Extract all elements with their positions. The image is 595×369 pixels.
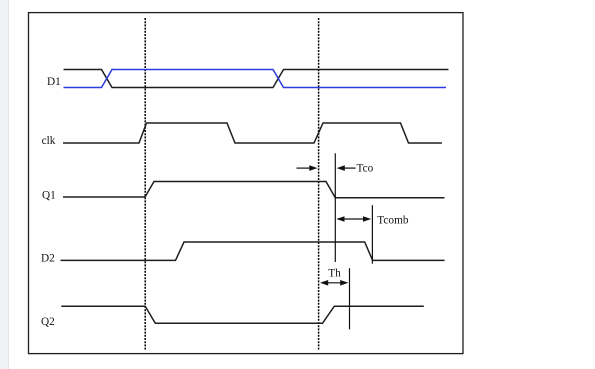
svg-text:D2: D2 [41, 253, 55, 265]
wire Q2 waveform [61, 306, 424, 323]
tick line for Tco (at Q1 fall) [334, 153, 336, 262]
Tco arrow pointing left [337, 165, 356, 171]
wire D1 bus blue trace [64, 70, 447, 88]
svg-text:Q1: Q1 [42, 190, 56, 202]
wire D1 bus black trace [64, 70, 449, 88]
Th double arrow [320, 280, 348, 286]
tick line for Th (at Q2 rise) [349, 268, 351, 329]
arrow pointing right at reference line 2 [297, 165, 318, 171]
tick line for Tcomb (at D2 fall) [371, 205, 373, 264]
wire Q1 waveform [63, 182, 445, 198]
svg-text:Th: Th [328, 267, 341, 279]
Tcomb double arrow [336, 216, 371, 222]
svg-text:clk: clk [42, 135, 56, 147]
wire clk waveform [63, 123, 442, 143]
clock edge reference line 1 (dashed) [144, 18, 146, 350]
svg-text:D1: D1 [47, 76, 61, 88]
wire D2 waveform [61, 242, 445, 260]
svg-text:Tco: Tco [357, 163, 374, 175]
svg-text:Q2: Q2 [41, 316, 55, 328]
svg-text:Tcomb: Tcomb [377, 215, 409, 227]
clock edge reference line 2 (dashed) [318, 18, 320, 350]
